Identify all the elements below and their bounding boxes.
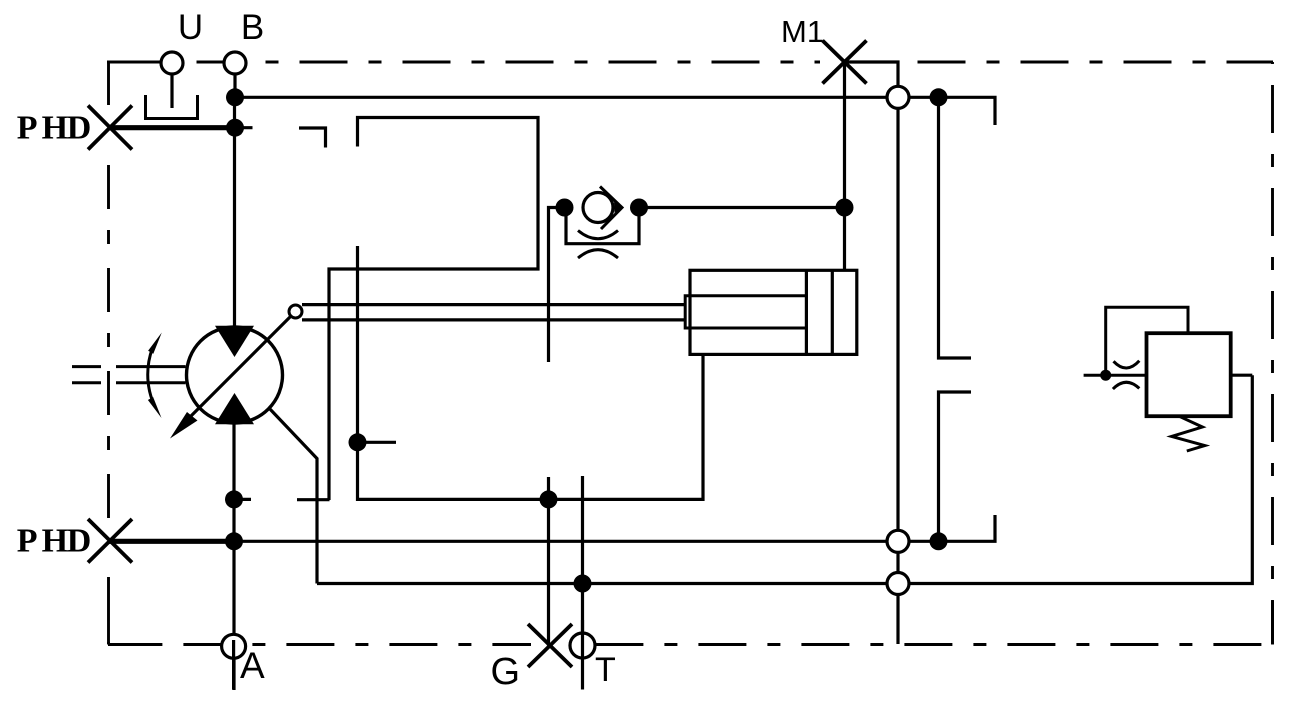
wire check valve to M1 line (639, 206, 845, 209)
wire y=583.5 right of circle to relief valve (910, 375, 1252, 583)
pump circle (187, 327, 283, 423)
junction dot B upper (226, 88, 244, 106)
wire pump axis upper (233, 97, 236, 326)
cross M1 (823, 41, 867, 84)
relief valve pilot junction dot (1100, 370, 1111, 381)
corner elbow mark (299, 128, 326, 148)
port circle A (222, 634, 246, 658)
port A inner line (232, 640, 235, 690)
check valve bypass loop (566, 208, 639, 244)
wire y=541 to right circle (234, 540, 886, 543)
svg-text:P HD: P HD (17, 110, 90, 147)
relief valve inlet (1084, 374, 1147, 377)
stub at y=500 (297, 498, 330, 501)
orifice arc upper (578, 231, 618, 239)
enclosure border top (107, 61, 1273, 64)
stub right of dot 357,442 (358, 441, 397, 444)
junction dot check valve right (630, 199, 648, 217)
wire T vertical upper (581, 476, 584, 634)
enclosure border right (1271, 62, 1274, 644)
swash plate feedback diagonal (269, 408, 318, 584)
junction dot pump lower 2 (225, 532, 243, 550)
junction dot G line (540, 490, 558, 508)
stub right of top B dot (235, 126, 253, 129)
pump triangle bottom (215, 393, 254, 424)
relief valve outlet (1231, 374, 1253, 377)
junction dot top right (930, 88, 948, 106)
wire B down (233, 75, 236, 97)
drive shaft lines (72, 365, 101, 368)
enclosure border bottom (108, 643, 1272, 646)
svg-text:A: A (240, 645, 265, 686)
pump triangle top (215, 326, 254, 357)
svg-text:P HD: P HD (17, 523, 90, 560)
svg-text:B: B (241, 8, 264, 47)
junction dot right lower (930, 532, 948, 550)
port circle right mid (887, 530, 909, 552)
wire y=97 long horizontal (235, 96, 886, 99)
cross G (528, 624, 572, 667)
border gap under G cross (531, 639, 571, 652)
stub right of dot 234,499 (234, 498, 251, 501)
wire x=898 segments (896, 109, 899, 529)
port circle B (224, 52, 246, 74)
enclosure border left (107, 62, 110, 644)
check valve inlet corner (549, 208, 561, 363)
feedback link rods (302, 303, 686, 306)
svg-text:G: G (490, 651, 520, 693)
variable displacement arrow (190, 316, 291, 417)
wire x=938 lower with stub (939, 392, 972, 541)
junction dot M1 line (836, 199, 854, 217)
border gap under M1 cross (820, 55, 846, 69)
pivot circle at rod end (289, 305, 302, 318)
port circle right low (887, 573, 909, 595)
relief valve spring (1172, 416, 1205, 451)
check valve seat (600, 187, 622, 230)
border gap under bottom PHD cross (102, 518, 115, 563)
junction dot T line (574, 575, 592, 593)
piston lines (805, 270, 808, 354)
port circle U (161, 52, 183, 74)
C-shaped control line (329, 118, 538, 501)
tank symbol under U (146, 95, 198, 119)
wire y=541 right of circle (910, 515, 995, 541)
wire y=97 right of circle (910, 97, 995, 125)
port circle right top (887, 86, 909, 108)
svg-text:M1: M1 (781, 14, 824, 49)
orifice arc lower (578, 250, 618, 258)
piston rod (685, 296, 806, 328)
relief valve body square (1147, 333, 1231, 416)
port T inner line (581, 620, 584, 690)
junction dot control line (349, 433, 367, 451)
wire G vertical (547, 477, 550, 646)
rotation arc arrow (148, 348, 153, 401)
junction dot check valve left (556, 199, 574, 217)
junction dot pump lower 1 (225, 490, 243, 508)
relief valve orifice arcs (1114, 361, 1140, 368)
svg-text:T: T (595, 651, 616, 689)
wire thick PHD top (109, 125, 235, 130)
wire x=938 upper with stub (939, 100, 972, 358)
check valve seat wedge (614, 202, 622, 213)
relief valve pilot loop (1106, 307, 1188, 375)
wire x=357 down and to cylinder bottom port (358, 246, 704, 499)
wire M1 elbow to circle (845, 62, 899, 85)
svg-text:U: U (178, 8, 203, 47)
wire pump axis lower (232, 424, 235, 690)
wire thick PHD bottom (109, 539, 234, 544)
border gap under top PHD cross (102, 105, 115, 150)
junction dot B lower (226, 119, 244, 137)
wire y=583.5 bottom long (317, 582, 886, 585)
wire M1 vertical to cylinder (843, 62, 846, 270)
check valve ball circle (583, 193, 613, 223)
cross PHD top (88, 106, 132, 150)
cross PHD bottom (88, 519, 132, 563)
cylinder body (690, 270, 857, 354)
wire U down into tank (170, 75, 173, 108)
port circle T (570, 633, 595, 658)
